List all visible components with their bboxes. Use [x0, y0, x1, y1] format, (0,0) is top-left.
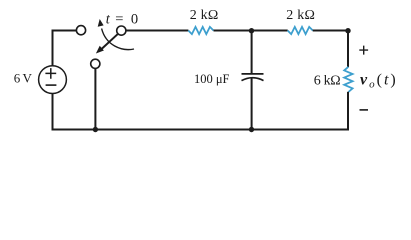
svg-text:t=0: t=0 [106, 11, 138, 27]
wire left vertical lower [52, 94, 54, 131]
svg-text:6 V: 6 V [14, 71, 33, 86]
switch left contact [76, 26, 85, 35]
capacitor 100uF [242, 74, 264, 81]
switch motion curved arrow [98, 19, 134, 50]
wire top-left segment [53, 30, 77, 32]
label 6 V [14, 71, 33, 86]
wire capacitor branch lower [251, 78, 253, 129]
label plus sign [359, 46, 368, 55]
wire R2 to top-right corner [313, 30, 349, 32]
svg-text:6 kΩ: 6 kΩ [314, 73, 341, 88]
label 2 kOhm (right) [286, 8, 315, 23]
label 100 uF [194, 72, 230, 86]
wire right vertical lower [347, 92, 349, 131]
switch pivot contact [117, 26, 126, 35]
junction dot top-middle [249, 28, 254, 33]
switch bottom contact [91, 59, 100, 68]
svg-text:2 kΩ: 2 kΩ [190, 8, 219, 23]
wire pivot to R1 [126, 30, 188, 32]
label 6 kOhm [314, 73, 341, 88]
junction dot top-right [345, 28, 350, 33]
svg-text:2 kΩ: 2 kΩ [286, 8, 315, 23]
wire capacitor branch upper [251, 30, 253, 74]
label minus sign [360, 109, 369, 111]
resistor 2 kOhm (right) [288, 27, 313, 34]
wire right vertical upper [347, 30, 349, 68]
voltage source 6V [39, 66, 67, 94]
switch arm with arrowhead [96, 34, 118, 53]
resistor 2 kOhm (left) [188, 27, 213, 34]
junction dot bottom-left [93, 127, 98, 132]
wire bottom rail [52, 129, 350, 131]
svg-text:100 μF: 100 μF [194, 72, 230, 86]
wire left vertical upper [52, 30, 54, 66]
label vo(t) [360, 71, 398, 90]
svg-text:vo(t): vo(t) [360, 71, 398, 90]
label 2 kOhm (left) [190, 8, 219, 23]
junction dot bottom-middle [249, 127, 254, 132]
wire R1 to junction to R2 [214, 30, 288, 32]
label t = 0 [106, 11, 138, 27]
wire switch bottom branch [94, 68, 96, 129]
resistor 6 kOhm [344, 67, 352, 92]
